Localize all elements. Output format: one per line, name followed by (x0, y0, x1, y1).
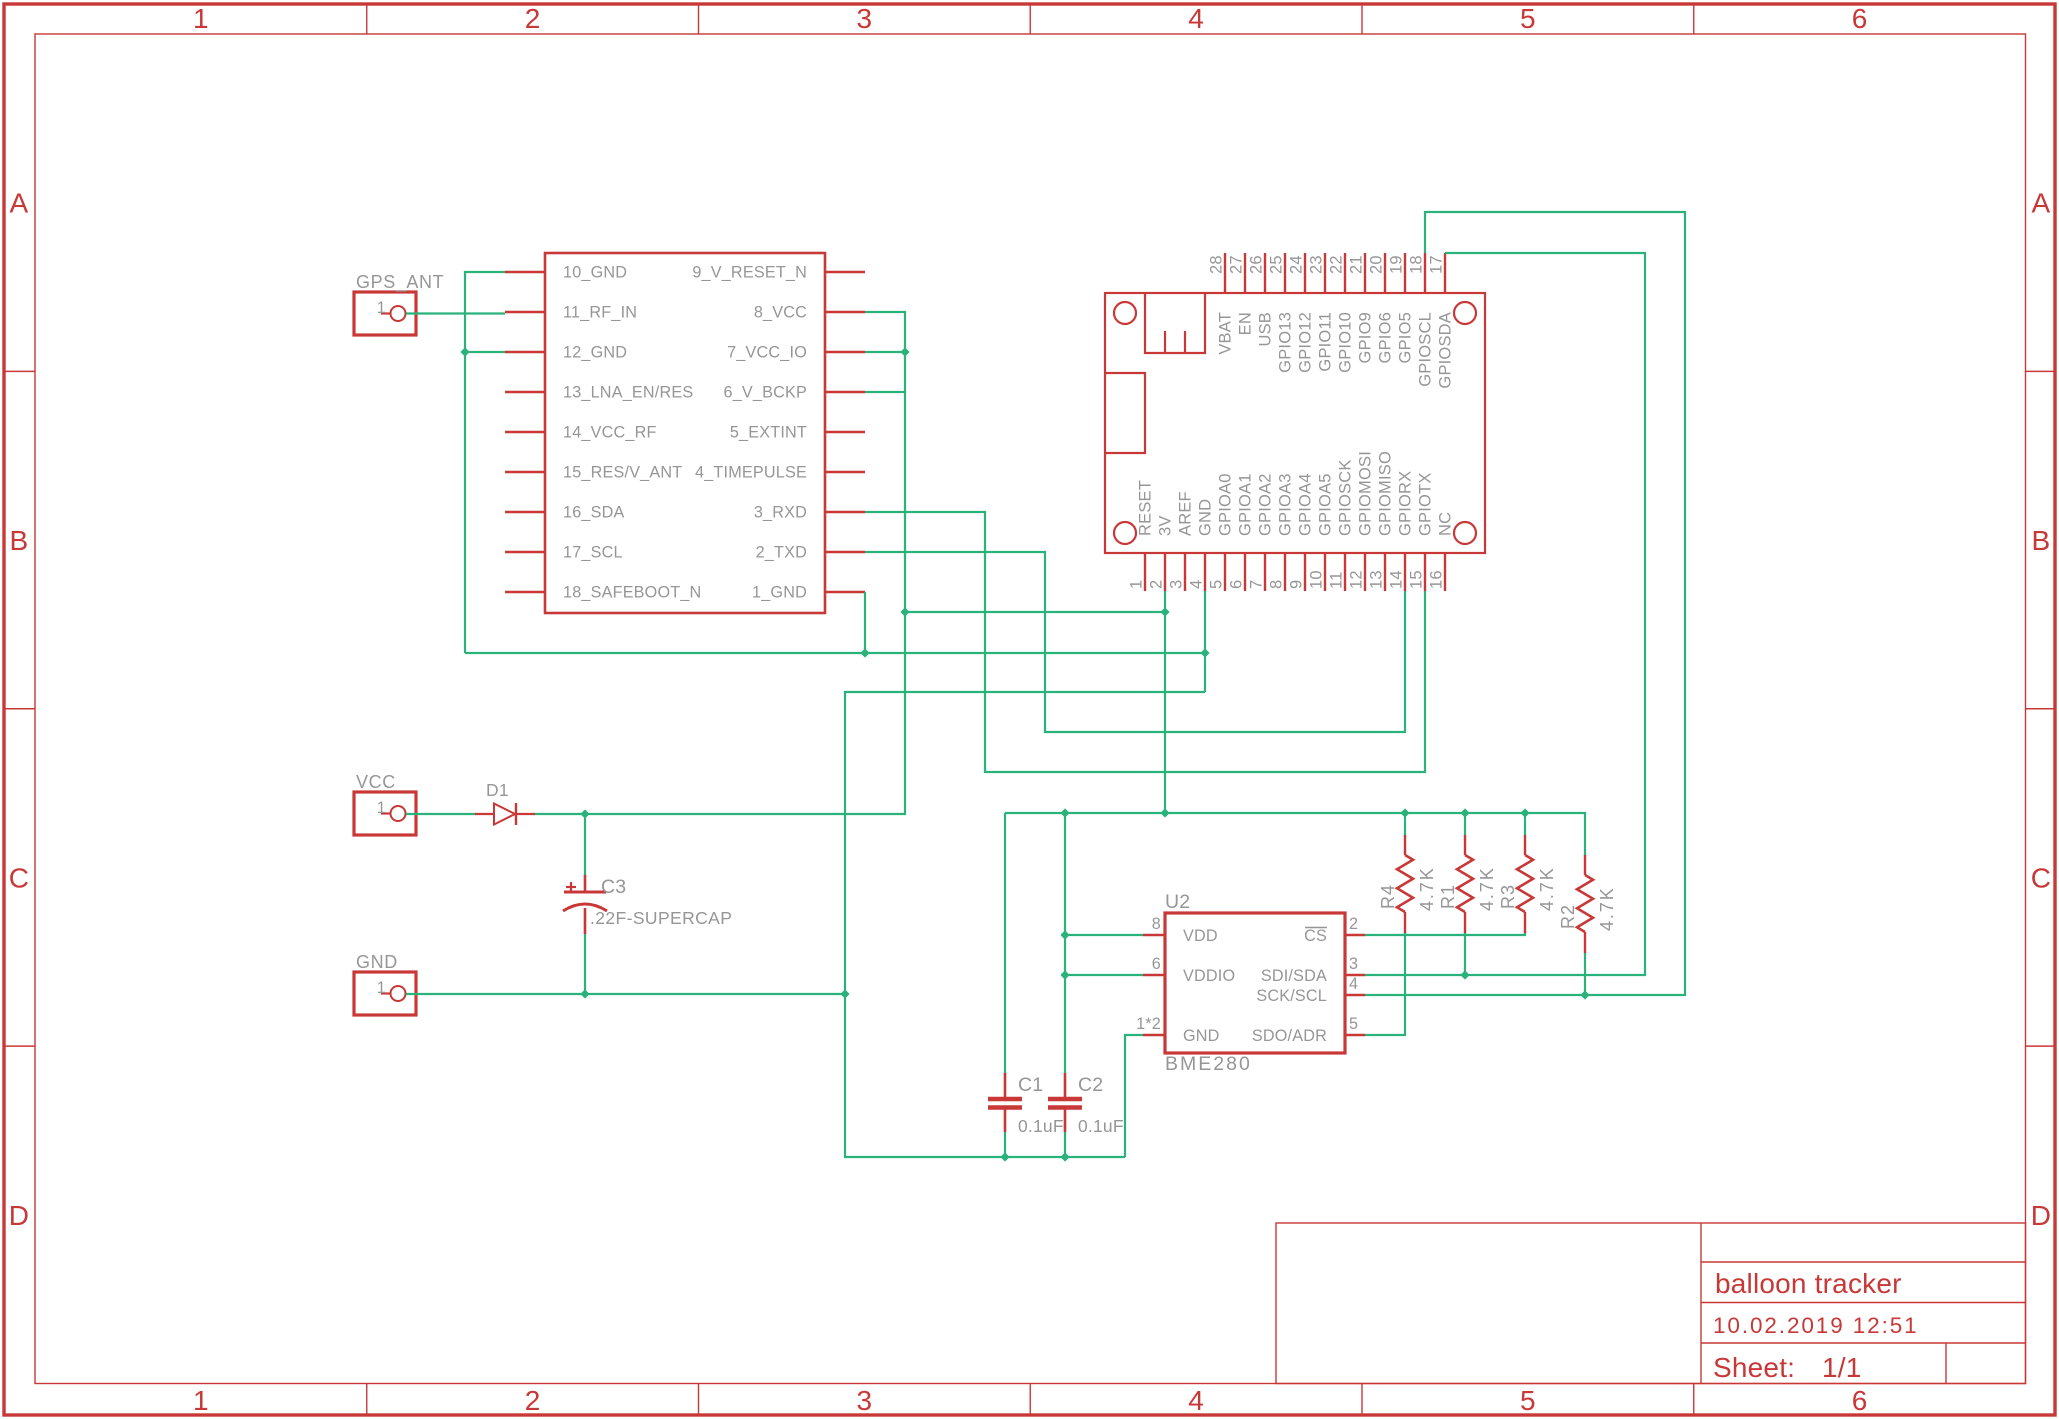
MCU bottom pin names (1137, 451, 1455, 536)
svg-text:11: 11 (1328, 571, 1346, 589)
svg-text:U2: U2 (1165, 891, 1190, 913)
svg-text:CS: CS (1304, 927, 1327, 945)
wire 3V rail with R2 drop (1005, 813, 1585, 856)
svg-text:5: 5 (1520, 1385, 1536, 1416)
wire GND horizontal to MCU pin4 (465, 652, 1205, 654)
svg-text:8: 8 (1268, 580, 1286, 589)
junction 12_GND (460, 347, 469, 356)
svg-text:9: 9 (1288, 580, 1306, 589)
svg-text:GPIOMISO: GPIOMISO (1377, 451, 1395, 536)
svg-text:SDO/ADR: SDO/ADR (1252, 1027, 1327, 1045)
wire R3 top (1524, 813, 1526, 836)
wire C3 vertical top (584, 814, 586, 876)
svg-text:10.02.2019 12:51: 10.02.2019 12:51 (1713, 1313, 1919, 1338)
svg-text:AREF: AREF (1177, 491, 1195, 536)
svg-text:7: 7 (1248, 580, 1266, 589)
svg-text:8_VCC: 8_VCC (754, 304, 807, 322)
wire SDI/SDA net (1365, 253, 1645, 975)
svg-text:D1: D1 (486, 780, 509, 800)
svg-text:18: 18 (1408, 255, 1426, 274)
svg-text:4: 4 (1349, 975, 1358, 993)
resistor R4 (1397, 835, 1413, 933)
junction R1 bottom (1460, 970, 1469, 979)
svg-text:9_V_RESET_N: 9_V_RESET_N (692, 264, 807, 282)
svg-text:GPIOA5: GPIOA5 (1317, 473, 1335, 536)
svg-text:6: 6 (1228, 580, 1246, 589)
svg-text:VDD: VDD (1183, 927, 1218, 945)
svg-text:16_SDA: 16_SDA (563, 504, 625, 522)
svg-text:VBAT: VBAT (1217, 312, 1235, 355)
svg-text:D: D (2031, 1200, 2051, 1231)
svg-text:13: 13 (1368, 570, 1386, 589)
svg-text:8: 8 (1152, 915, 1161, 933)
svg-text:R3: R3 (1498, 884, 1518, 909)
wire U2 GND pin (1125, 1035, 1143, 1157)
MCU side notch (1105, 373, 1145, 453)
U2 right pins (1345, 935, 1365, 1035)
svg-text:3: 3 (1349, 955, 1358, 973)
svg-text:6_V_BCKP: 6_V_BCKP (724, 384, 808, 402)
MCU mounting holes (1114, 302, 1476, 544)
svg-text:1*2: 1*2 (1136, 1015, 1161, 1033)
wire U2 VDDIO (1065, 974, 1143, 976)
svg-text:27: 27 (1228, 255, 1246, 274)
junction 3V rail (1160, 808, 1169, 817)
svg-text:GND: GND (1197, 499, 1215, 536)
IC U2 BME280 box (1165, 913, 1345, 1053)
svg-text:GPIOTX: GPIOTX (1417, 472, 1435, 536)
svg-text:4.7K: 4.7K (1417, 866, 1437, 911)
svg-text:BME280: BME280 (1165, 1053, 1252, 1075)
svg-text:NC: NC (1437, 512, 1455, 536)
wire SCK/SCL net (1365, 212, 1685, 995)
wire GND return to bottom rail (845, 692, 1205, 1157)
svg-text:1: 1 (1128, 580, 1146, 589)
svg-text:GPIOSDA: GPIOSDA (1437, 312, 1455, 389)
svg-text:10_GND: 10_GND (563, 264, 627, 282)
svg-text:GPIOA4: GPIOA4 (1297, 473, 1315, 536)
resistor R1 (1457, 835, 1473, 933)
svg-text:1: 1 (193, 3, 209, 34)
svg-text:GPIO11: GPIO11 (1317, 312, 1335, 372)
svg-text:5: 5 (1349, 1015, 1358, 1033)
svg-text:15: 15 (1408, 570, 1426, 589)
svg-text:3V: 3V (1157, 515, 1175, 536)
svg-text:GPIO9: GPIO9 (1357, 312, 1375, 363)
GPS module (545, 253, 825, 613)
wire 12_GND stub (465, 351, 505, 353)
GPS module pin names (563, 264, 807, 602)
svg-text:R2: R2 (1558, 904, 1578, 929)
svg-text:Sheet:: Sheet: (1713, 1352, 1795, 1383)
wire R1 bottom (1464, 932, 1466, 975)
U2 pin names (1183, 927, 1327, 1045)
svg-text:5_EXTINT: 5_EXTINT (730, 424, 807, 442)
wire C2 VDD vertical bottom (1064, 1132, 1066, 1157)
wire C3 vertical bottom (584, 933, 586, 994)
svg-text:B: B (2032, 525, 2051, 556)
svg-text:4.7K: 4.7K (1597, 886, 1617, 931)
MCU bottom pins (1145, 553, 1445, 591)
svg-text:11_RF_IN: 11_RF_IN (563, 304, 637, 322)
MCU bottom pin numbers (1128, 570, 1446, 589)
junction VDD (1060, 930, 1069, 939)
svg-text:D: D (9, 1200, 29, 1231)
junction R2 bottom (1580, 990, 1589, 999)
connector GPS_ANT (354, 292, 416, 335)
svg-text:10: 10 (1308, 570, 1326, 589)
wire R3 to CS (1365, 932, 1525, 935)
wire MCU 3V vertical (1164, 591, 1166, 813)
svg-text:A: A (2032, 188, 2051, 219)
svg-text:GPIOSCL: GPIOSCL (1417, 312, 1435, 387)
svg-text:1: 1 (193, 1385, 209, 1416)
svg-text:GPIO13: GPIO13 (1277, 312, 1295, 373)
svg-text:GPS_ANT: GPS_ANT (356, 272, 444, 293)
svg-text:GPIOA2: GPIOA2 (1257, 473, 1275, 536)
svg-text:VDDIO: VDDIO (1183, 967, 1235, 985)
svg-text:1_GND: 1_GND (752, 584, 807, 602)
resistor R3 (1517, 835, 1533, 933)
wire D1 to junction (534, 813, 585, 815)
svg-text:USB: USB (1257, 312, 1275, 347)
svg-text:C: C (2031, 862, 2051, 893)
svg-text:1: 1 (377, 799, 386, 817)
svg-text:R1: R1 (1438, 884, 1458, 909)
svg-text:C1: C1 (1018, 1074, 1043, 1096)
svg-text:15_RES/V_ANT: 15_RES/V_ANT (563, 464, 682, 482)
svg-text:17: 17 (1428, 255, 1446, 274)
wire R1 top (1464, 813, 1466, 836)
svg-text:C: C (9, 862, 29, 893)
MCU USB connector symbol (1145, 293, 1205, 353)
svg-text:GPIOA1: GPIOA1 (1237, 473, 1255, 536)
junction VCC C3 (580, 809, 589, 818)
svg-text:R4: R4 (1378, 884, 1398, 909)
wire GND connector rail (406, 993, 845, 995)
svg-text:18_SAFEBOOT_N: 18_SAFEBOOT_N (563, 584, 701, 602)
connector GND (354, 972, 416, 1015)
junction VCC strap left (900, 607, 909, 616)
svg-text:GPIO5: GPIO5 (1397, 312, 1415, 363)
frame row labels (9, 188, 2051, 1231)
wire MCU GND pin4 vertical (1204, 591, 1206, 692)
wire 6_V_BCKP stub (865, 391, 905, 393)
wire RXD to GPIOTX (865, 512, 1425, 772)
wire 1_GND drop (864, 592, 866, 653)
sheet label (1713, 1352, 1862, 1383)
svg-text:2_TXD: 2_TXD (756, 544, 807, 562)
svg-text:GPIOA3: GPIOA3 (1277, 473, 1295, 536)
svg-text:balloon tracker: balloon tracker (1715, 1268, 1902, 1299)
svg-text:3: 3 (856, 1385, 872, 1416)
svg-text:14: 14 (1388, 570, 1406, 589)
svg-text:13_LNA_EN/RES: 13_LNA_EN/RES (563, 384, 693, 402)
wire C1 vertical top (1004, 813, 1006, 1074)
title block (1276, 1223, 2026, 1384)
U2 pin numbers (1136, 915, 1358, 1033)
diode D1 (475, 803, 535, 825)
svg-text:0.1uF: 0.1uF (1018, 1116, 1064, 1136)
svg-text:25: 25 (1268, 255, 1286, 274)
junction R4 top (1400, 808, 1409, 817)
junction 1_GND (860, 648, 869, 657)
svg-text:5: 5 (1520, 3, 1536, 34)
svg-text:20: 20 (1368, 255, 1386, 274)
wire VCC connector to D1 (406, 813, 476, 815)
svg-text:GPIO12: GPIO12 (1297, 312, 1315, 373)
svg-text:4_TIMEPULSE: 4_TIMEPULSE (695, 464, 807, 482)
wire R4 to SDO/ADR (1365, 932, 1405, 1035)
GPS module right pins (825, 272, 865, 592)
junction C2 bottom (1060, 1152, 1069, 1161)
wire 10_GND down left rail (465, 272, 505, 653)
svg-text:GPIO10: GPIO10 (1337, 312, 1355, 373)
wire VCC to GPS 8_VCC (585, 312, 905, 814)
wire C2 VDD vertical top (1064, 813, 1066, 1074)
junction GND rail C3 (580, 989, 589, 998)
svg-text:24: 24 (1288, 255, 1306, 274)
svg-text:22: 22 (1328, 255, 1346, 274)
wire VCC cross strap (905, 611, 1165, 613)
svg-text:14_VCC_RF: 14_VCC_RF (563, 424, 657, 442)
svg-text:4: 4 (1188, 3, 1204, 34)
MCU top pin numbers (1208, 255, 1446, 274)
svg-text:23: 23 (1308, 255, 1326, 274)
svg-text:GND: GND (356, 952, 398, 972)
svg-text:EN: EN (1237, 312, 1255, 335)
junction C1 bottom (1000, 1152, 1009, 1161)
svg-text:6: 6 (1852, 3, 1868, 34)
svg-text:1: 1 (377, 299, 386, 317)
svg-text:3: 3 (1168, 580, 1186, 589)
MCU top pins (1225, 253, 1445, 293)
svg-text:SDI/SDA: SDI/SDA (1261, 967, 1327, 985)
GPS module left pins (505, 272, 545, 592)
junction MCU GND (1200, 648, 1209, 657)
svg-text:6: 6 (1152, 955, 1161, 973)
connector VCC (354, 792, 416, 835)
svg-text:3_RXD: 3_RXD (754, 504, 807, 522)
svg-text:26: 26 (1248, 255, 1266, 274)
svg-text:6: 6 (1852, 1385, 1868, 1416)
svg-text:2: 2 (525, 1385, 541, 1416)
junction R3 top (1520, 808, 1529, 817)
svg-text:4.7K: 4.7K (1537, 866, 1557, 911)
svg-text:4.7K: 4.7K (1477, 866, 1497, 911)
svg-text:GPIOSCK: GPIOSCK (1337, 459, 1355, 536)
svg-text:21: 21 (1348, 255, 1366, 274)
svg-text:GPIO6: GPIO6 (1377, 312, 1395, 363)
capacitor C1 (988, 1073, 1022, 1132)
wire TXD to GPIORX (865, 552, 1405, 732)
junction GND rail corner (840, 989, 849, 998)
svg-text:1: 1 (377, 979, 386, 997)
svg-text:GPIOA0: GPIOA0 (1217, 473, 1235, 536)
wire GPS_ANT to 11_RF_IN (406, 312, 505, 314)
svg-text:A: A (10, 188, 29, 219)
MCU top pin names (1217, 312, 1455, 389)
svg-text:4: 4 (1188, 580, 1206, 589)
junction VCC strap right (1160, 607, 1169, 616)
svg-text:3: 3 (856, 3, 872, 34)
wire 7_VCC_IO stub (865, 351, 905, 353)
wire R2 bottom (1584, 952, 1586, 995)
junction 7_VCC_IO (900, 347, 909, 356)
svg-text:12_GND: 12_GND (563, 344, 627, 362)
svg-text:0.1uF: 0.1uF (1078, 1116, 1124, 1136)
svg-text:19: 19 (1388, 255, 1406, 274)
capacitor C2 (1048, 1073, 1082, 1132)
svg-text:RESET: RESET (1137, 480, 1155, 536)
MCU module (1105, 293, 1485, 553)
junction C2 top (1060, 808, 1069, 817)
svg-text:C2: C2 (1078, 1074, 1103, 1096)
wire R4 top (1404, 813, 1406, 836)
svg-text:GPIORX: GPIORX (1397, 471, 1415, 536)
svg-text:7_VCC_IO: 7_VCC_IO (727, 344, 807, 362)
svg-text:B: B (10, 525, 29, 556)
svg-text:.22F-SUPERCAP: .22F-SUPERCAP (590, 908, 732, 928)
junction R1 top (1460, 808, 1469, 817)
U2 left pins (1143, 935, 1165, 1035)
svg-text:16: 16 (1428, 570, 1446, 589)
resistor R2 (1577, 855, 1593, 953)
svg-text:17_SCL: 17_SCL (563, 544, 623, 562)
wire U2 VDD (1065, 934, 1143, 936)
svg-text:2: 2 (1148, 580, 1166, 589)
wire C1 vertical bottom (1004, 1132, 1006, 1157)
svg-text:C3: C3 (601, 876, 626, 898)
svg-text:1/1: 1/1 (1822, 1352, 1862, 1383)
svg-text:12: 12 (1348, 570, 1366, 589)
svg-text:4: 4 (1188, 1385, 1204, 1416)
svg-text:GPIOMOSI: GPIOMOSI (1357, 451, 1375, 536)
svg-text:VCC: VCC (356, 772, 396, 792)
svg-text:SCK/SCL: SCK/SCL (1256, 987, 1327, 1005)
junction VDDIO (1060, 970, 1069, 979)
svg-text:2: 2 (1349, 915, 1358, 933)
svg-text:2: 2 (525, 3, 541, 34)
svg-text:28: 28 (1208, 255, 1226, 274)
capacitor C3 (563, 875, 607, 934)
svg-text:5: 5 (1208, 580, 1226, 589)
svg-text:GND: GND (1183, 1027, 1220, 1045)
